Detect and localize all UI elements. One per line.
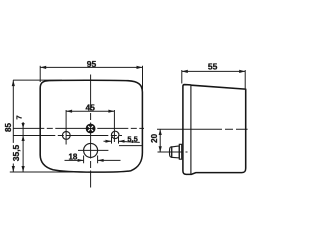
svg-text:7: 7 [14, 115, 23, 119]
svg-text:55: 55 [208, 62, 218, 72]
svg-text:45: 45 [85, 102, 95, 112]
svg-text:85: 85 [4, 123, 13, 132]
svg-text:20: 20 [150, 133, 159, 142]
svg-text:5,5: 5,5 [127, 134, 137, 143]
svg-text:95: 95 [87, 59, 97, 69]
svg-text:18: 18 [68, 152, 77, 161]
svg-text:35,5: 35,5 [11, 144, 21, 161]
